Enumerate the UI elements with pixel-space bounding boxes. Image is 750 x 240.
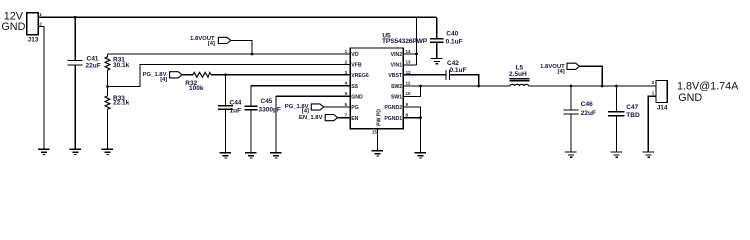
svg-text:3: 3 [345,70,348,75]
svg-text:100k: 100k [189,85,204,92]
ground C44 [220,153,232,158]
svg-text:SS: SS [351,84,358,90]
svg-text:22uF: 22uF [581,110,596,117]
wire VO net (pin 1) [108,53,351,55]
svg-text:2: 2 [652,80,655,85]
node VIN junction [415,53,418,56]
node 1.8VOUT junction [601,85,604,88]
svg-text:[4]: [4] [302,108,309,114]
wire GND net (pin 5) [276,95,350,97]
wire SS net (pin 4) [251,85,350,87]
node C47 junction [615,85,618,88]
svg-text:C45: C45 [261,98,273,105]
svg-text:VIN2: VIN2 [391,52,403,58]
svg-text:3300pF: 3300pF [259,107,281,114]
svg-text:1.8V@1.74A: 1.8V@1.74A [677,80,739,92]
wire VFB net (pin 2) [108,64,351,86]
ground C46 [565,152,577,157]
svg-text:12: 12 [406,70,412,75]
node PGND junction [419,116,422,119]
svg-text:[4]: [4] [160,77,167,83]
capacitor C46 [570,86,572,110]
svg-text:SW2: SW2 [391,84,402,90]
svg-text:1: 1 [652,91,655,96]
capacitor C41 [74,17,76,60]
svg-text:11: 11 [406,81,411,86]
svg-text:15: 15 [372,129,378,134]
wire PGND to ground [420,118,422,153]
wire SW1 riser [403,86,420,96]
svg-text:C44: C44 [230,100,242,107]
svg-text:VO: VO [351,52,359,58]
svg-text:2: 2 [345,59,348,64]
svg-text:GND: GND [678,92,702,104]
wire VIN1 stub [403,64,416,66]
ground U5 pad [372,151,384,156]
svg-text:PGND2: PGND2 [384,105,402,111]
svg-text:4: 4 [345,81,348,86]
node C44 junction [224,73,227,76]
node C46 junction [570,85,573,88]
ground J13 [38,149,50,154]
svg-text:GND: GND [351,94,363,100]
svg-text:EN_1.8V: EN_1.8V [299,115,323,121]
node VO/1.8VOUT junction [251,53,254,56]
ground PGND [415,153,427,158]
svg-text:0.1uF: 0.1uF [446,38,463,45]
wire 1.8VOUT flag to VOUT line [579,66,602,86]
svg-text:1uF: 1uF [230,108,242,115]
svg-text:VBST: VBST [388,73,403,79]
wire 12V rail [38,16,436,18]
connector J13 [27,13,39,35]
wire VREG6 net (pin 3) [211,74,350,76]
svg-text:EN: EN [351,116,358,122]
wire VBST net (pin 12) [403,74,446,76]
svg-text:TBD: TBD [626,112,640,119]
ground C41 [69,149,81,154]
wire J13 pin2 to ground [38,26,44,149]
svg-text:2.5uH: 2.5uH [509,71,527,78]
wire PG net (pin 6) [324,106,351,108]
svg-text:13: 13 [406,59,412,64]
svg-text:C41: C41 [87,55,99,62]
svg-text:VIN1: VIN1 [391,63,403,69]
svg-text:22uF: 22uF [86,63,101,70]
node divider midpoint [106,85,109,88]
svg-text:SW1: SW1 [391,94,402,100]
svg-text:PW PD: PW PD [377,109,383,126]
svg-text:14: 14 [406,49,412,54]
wire PGND2 stub [403,107,420,118]
svg-text:1: 1 [39,12,42,17]
svg-text:10: 10 [406,91,412,96]
svg-text:J13: J13 [28,37,39,44]
op-amp U5 TPS54326PWP box [350,48,403,129]
wire PGND1 stub [403,117,420,119]
resistor R32 [193,72,211,77]
svg-text:C46: C46 [581,101,593,108]
ground C40 [431,59,443,64]
svg-text:30.1k: 30.1k [113,62,130,69]
capacitor C45 [250,86,252,107]
node C41 rail junction [74,16,77,19]
node SW junction [419,85,422,88]
svg-text:C40: C40 [446,30,458,37]
svg-text:GND: GND [1,21,25,33]
wire VOUT net after L5 [529,85,656,87]
wire thermal pad to ground [377,129,379,151]
node VBST/SW junction [477,85,480,88]
svg-text:6: 6 [345,102,348,107]
wire 1.8VOUT to VO line [231,40,252,54]
svg-text:9: 9 [406,102,409,107]
connector J14 [656,80,667,102]
svg-text:[4]: [4] [557,69,564,75]
svg-text:7: 7 [345,113,348,118]
svg-text:TPS54326PWP: TPS54326PWP [382,38,428,45]
ground pin5 [270,153,282,158]
capacitor C47 [615,86,617,112]
wire PG_1.8V to R32 [182,74,193,76]
svg-text:5: 5 [345,91,348,96]
svg-text:VFB: VFB [351,63,362,69]
resistor R31 [107,54,109,57]
svg-text:C47: C47 [626,104,638,111]
ground C47 [611,152,623,157]
wire VIN2 stub [403,53,416,55]
ground J14 [643,152,655,157]
svg-text:PGND1: PGND1 [384,116,402,122]
capacitor C44 [225,75,227,106]
capacitor C42 [446,70,450,80]
wire EN net (pin 7) [338,117,351,119]
svg-text:VREG6: VREG6 [351,73,369,79]
svg-text:[4]: [4] [208,41,215,47]
svg-text:1: 1 [345,49,348,54]
resistor R33 [107,87,109,96]
svg-text:PG: PG [351,105,359,111]
svg-text:0.1uF: 0.1uF [450,67,467,74]
svg-text:22.1k: 22.1k [113,100,130,107]
ground R33 [102,149,114,154]
ground C45 [245,153,257,158]
wire J14 pin1 to ground [648,96,656,152]
svg-text:8: 8 [406,113,409,118]
wire SW2 net (pin 11) to L5 [403,85,510,87]
svg-text:J14: J14 [657,104,668,111]
capacitor C40 [436,17,438,39]
wire VIN riser [416,17,418,65]
